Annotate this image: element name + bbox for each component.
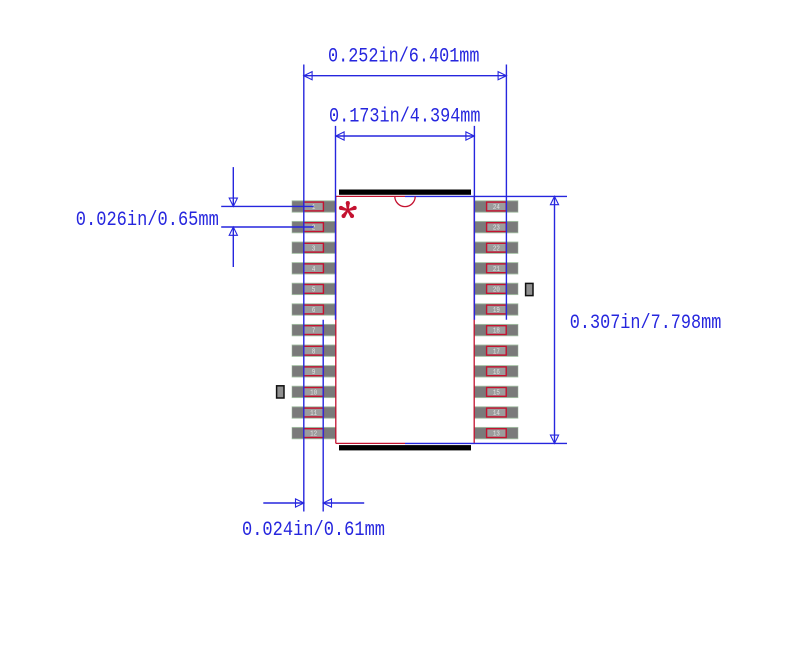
pin pad 10 — [292, 386, 337, 398]
pin pad 6 — [292, 303, 337, 315]
svg-text:9: 9 — [312, 369, 316, 377]
dimension line 0.252in/6.401mm — [304, 45, 507, 80]
svg-text:8: 8 — [312, 348, 316, 356]
svg-text:21: 21 — [493, 266, 500, 274]
dimension 0.024in/0.61mm — [242, 499, 385, 542]
svg-text:19: 19 — [493, 307, 500, 315]
pin-1 end notch semicircle — [395, 196, 415, 206]
extension line left pad inner edge — [322, 320, 324, 512]
svg-text:0.026in/0.65mm: 0.026in/0.65mm — [76, 209, 219, 232]
svg-text:16: 16 — [493, 369, 500, 377]
pin pad 16 — [474, 365, 519, 377]
bottom silkscreen bar — [339, 445, 471, 450]
svg-text:24: 24 — [493, 204, 500, 212]
pin pad 20 — [474, 283, 519, 295]
svg-text:3: 3 — [312, 245, 316, 253]
svg-text:17: 17 — [493, 348, 500, 356]
IC body left edge — [335, 196, 337, 443]
svg-text:0.307in/7.798mm: 0.307in/7.798mm — [570, 312, 722, 335]
svg-text:1: 1 — [312, 204, 316, 212]
pin pad 5 — [292, 283, 337, 295]
pin pad 2 — [292, 221, 337, 233]
top silkscreen bar — [339, 190, 471, 195]
svg-text:23: 23 — [493, 225, 500, 233]
pin pad 22 — [474, 242, 519, 254]
svg-text:0.252in/6.401mm: 0.252in/6.401mm — [328, 45, 480, 68]
svg-text:2: 2 — [312, 225, 316, 233]
pin pad 15 — [474, 386, 519, 398]
IC body right edge — [473, 196, 475, 443]
svg-text:22: 22 — [493, 245, 500, 253]
pin pad 21 — [474, 262, 519, 274]
svg-text:10: 10 — [310, 390, 317, 398]
pin pad 19 — [474, 303, 519, 315]
pin pad 8 — [292, 345, 337, 357]
svg-text:5: 5 — [312, 287, 316, 295]
pin pad 23 — [474, 221, 519, 233]
svg-text:18: 18 — [493, 328, 500, 336]
left orientation marker rect — [277, 386, 284, 398]
svg-text:14: 14 — [493, 410, 500, 418]
svg-text:15: 15 — [493, 390, 500, 398]
svg-text:6: 6 — [312, 307, 316, 315]
svg-text:20: 20 — [493, 287, 500, 295]
pin pad 18 — [474, 324, 519, 336]
svg-text:4: 4 — [312, 266, 316, 274]
dimension 0.307in/7.798mm — [405, 196, 721, 443]
pin pad 1 — [292, 200, 337, 212]
pin pad 24 — [474, 200, 519, 212]
pin pad 11 — [292, 406, 337, 418]
svg-text:13: 13 — [493, 431, 500, 439]
dimension 0.026in/0.65mm pitch lines — [76, 167, 314, 267]
pin pad 14 — [474, 406, 519, 418]
svg-text:11: 11 — [310, 410, 317, 418]
right orientation marker rect — [526, 283, 533, 295]
extension line left pad outer edge — [303, 65, 305, 512]
svg-text:0.024in/0.61mm: 0.024in/0.61mm — [242, 519, 385, 542]
svg-text:7: 7 — [312, 328, 316, 336]
pin pad 3 — [292, 242, 337, 254]
pin pad 13 — [474, 427, 519, 439]
pin pad 17 — [474, 345, 519, 357]
extension line body left — [335, 126, 337, 320]
pin pad 7 — [292, 324, 337, 336]
extension line body right — [473, 126, 475, 320]
svg-text:12: 12 — [310, 431, 317, 439]
extension line right pad outer edge — [505, 65, 507, 320]
pin pad 12 — [292, 427, 337, 439]
IC body top edge — [336, 195, 405, 197]
IC body bottom edge — [336, 442, 405, 444]
pin pad 4 — [292, 262, 337, 274]
pin pad 9 — [292, 365, 337, 377]
dimension line 0.173in/4.394mm — [329, 105, 481, 140]
svg-text:0.173in/4.394mm: 0.173in/4.394mm — [329, 105, 481, 128]
pin-1 marker asterisk — [339, 201, 357, 218]
